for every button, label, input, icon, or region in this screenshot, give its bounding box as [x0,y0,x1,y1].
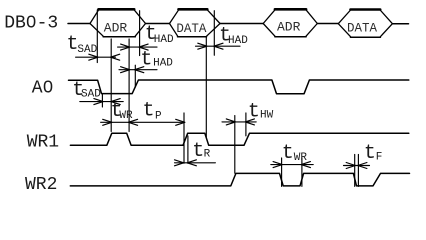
extension line at WR2 rise 2 [301,158,303,186]
extension line at WR2 fall 3 end [357,154,359,186]
extension line at DB X1 [96,10,98,63]
svg-text:t: t [192,140,204,163]
DB bus hexagon DATA 2 [338,10,392,38]
svg-text:A0: A0 [32,79,54,99]
extension line at ADR1 end [139,11,141,56]
label tWR 2 [282,142,308,165]
svg-text:HW: HW [260,110,274,122]
WR1 waveform [70,133,408,145]
wire DB bus link 3 [317,23,338,25]
svg-text:HAD: HAD [228,35,248,47]
wire DB bus link 1 [146,23,170,25]
extension line at WR1 rise 2 end [187,136,189,163]
extension line at A0 fall 1 [101,94,103,107]
dimension tWR 2 [271,162,313,168]
svg-text:HAD: HAD [153,58,173,70]
dimension tF [344,163,370,169]
svg-text:t: t [248,100,260,123]
dimension tSAD 1 [76,54,120,60]
svg-text:ADR: ADR [104,20,128,35]
wire DB bus link 2 [220,23,263,25]
dimension tHW [222,119,256,125]
extension line at WR1 rise 2 start [183,113,185,163]
svg-text:t: t [143,100,155,123]
extension line at WR1 rise 3 [245,113,247,136]
svg-text:WR2: WR2 [25,175,57,195]
label tHAD 3 [219,25,248,48]
label tSAD 1 [67,33,98,56]
extension line at A0 rise 1 [134,65,136,87]
label tHAD 1 [145,23,174,46]
svg-text:t: t [140,49,152,72]
label tHW [248,100,274,123]
svg-text:WR: WR [119,110,133,122]
extension line at WR2 fall 2 [281,158,283,186]
mask dot of 0 in DB0-3 [29,20,33,24]
mask dot of 0 in A0 [46,85,50,89]
signal label WR1 [27,133,59,153]
svg-text:R: R [204,149,211,161]
extension line at WR1 rise 1 [110,39,112,132]
A0 waveform [69,80,409,94]
svg-text:DATA: DATA [347,22,378,36]
extension line at WR2 fall 3 start [354,154,356,186]
extension line at DATA1 fall [205,37,207,137]
label tHAD 2 [140,49,173,72]
svg-text:F: F [376,151,383,163]
DB bus hexagon ADR 2 [263,9,317,36]
extension line at WR2 rise 1 [234,116,236,174]
svg-text:t: t [282,142,294,165]
extension line at DATA1 end vertex [213,11,215,56]
svg-text:ADR: ADR [277,20,301,35]
DB bus hexagon DATA 1 [170,9,221,36]
DB bus hexagon ADR 1 [90,9,146,36]
svg-text:WR: WR [294,152,308,164]
dimension tR [175,160,216,166]
svg-text:HAD: HAD [154,34,174,46]
label tP [143,100,163,123]
WR2 waveform [70,173,409,186]
label tR [192,140,210,163]
dimension tHAD 3 [196,43,241,49]
wire DB bus tail [392,23,408,25]
svg-text:SAD: SAD [77,44,97,56]
extension line at WR1 fall 1 [128,39,130,132]
svg-text:WR1: WR1 [27,133,59,153]
signal label DB0-3 [4,14,58,34]
svg-text:P: P [155,111,162,123]
label tWR 1 [111,100,134,123]
dimension tSAD 2 [80,99,123,105]
signal label A0 [32,79,54,99]
dimension tWR 1 and tP [101,119,185,125]
svg-text:t: t [364,142,376,165]
svg-text:DATA: DATA [176,22,207,36]
label tF [364,142,383,165]
dimension tHAD 1 [118,44,157,50]
wire DB bus lead-in [68,23,90,25]
label tSAD 2 [72,79,101,102]
dimension tHAD 2 [119,67,157,73]
svg-text:SAD: SAD [81,88,101,100]
signal label WR2 [25,175,57,195]
